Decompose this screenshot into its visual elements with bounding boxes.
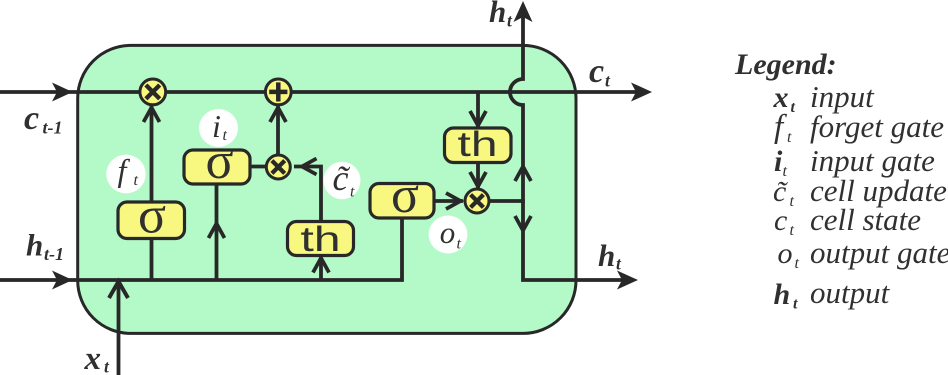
- operator: multiply i*cupdate: [266, 155, 290, 179]
- svg-text:h: h: [598, 238, 615, 273]
- svg-text:t: t: [793, 296, 798, 313]
- wire: th box down to output multiply: [476, 162, 480, 188]
- svg-text:t: t: [457, 236, 462, 253]
- LSTM cell body: [78, 45, 576, 333]
- arrowhead chevron up: [515, 167, 531, 182]
- wire: cell-state line c (horizontal): [0, 90, 640, 94]
- svg-text:σ: σ: [391, 167, 419, 224]
- svg-text:o: o: [778, 237, 793, 270]
- wire: junction down and right to h_t output: [523, 201, 622, 280]
- wire: junction up to top h_t with hop over c line: [510, 14, 523, 201]
- svg-text:t: t: [507, 11, 513, 31]
- svg-text:t: t: [787, 129, 792, 146]
- arrowhead chevron: [313, 258, 329, 273]
- svg-text:h: h: [26, 228, 43, 263]
- gate box: forget sigma: [118, 202, 185, 239]
- operator: plus on c line: [265, 79, 291, 105]
- wire: h bus (h_t-1 input, bottom): [0, 219, 402, 280]
- wire: forget branch (bus up through sigma to x-circle): [150, 106, 154, 279]
- arrowhead chevron down: [470, 172, 486, 187]
- wire: o sigma output right into multiply: [433, 199, 463, 203]
- svg-text:cell state: cell state: [810, 202, 921, 237]
- svg-text:t: t: [791, 99, 796, 116]
- arrowhead chevron down: [470, 111, 486, 126]
- wire: multiply to output junction: [490, 199, 525, 203]
- svg-text:th: th: [301, 220, 341, 259]
- svg-text:o: o: [440, 215, 456, 250]
- operator: multiply o*th: [465, 189, 489, 213]
- wire: multiply up to plus: [276, 105, 280, 155]
- svg-text:t: t: [605, 71, 611, 91]
- svg-text:th: th: [458, 125, 498, 164]
- gate box: th on cell state: [445, 128, 512, 163]
- svg-text:σ: σ: [138, 188, 166, 245]
- arrowhead output c_t: [631, 83, 652, 102]
- node label ellipse o_t: [429, 216, 468, 254]
- gate box: output sigma: [370, 184, 434, 219]
- svg-text:c̃: c̃: [333, 158, 352, 198]
- svg-text:t-1: t-1: [44, 244, 64, 264]
- wire: cell-update branch (bus up to th box): [319, 256, 323, 279]
- svg-text:c: c: [774, 204, 787, 237]
- arrowhead chevron down: [515, 216, 531, 231]
- svg-text:h: h: [774, 278, 791, 311]
- svg-text:t: t: [350, 184, 355, 201]
- arrowhead output h_t right: [617, 271, 638, 290]
- arrowhead chevron: [209, 224, 225, 239]
- gate box: cell-update th: [288, 222, 354, 256]
- arrowhead chevron into x-circle: [144, 108, 160, 123]
- gate box: input sigma: [184, 150, 250, 184]
- svg-text:x: x: [84, 341, 102, 375]
- node label ellipse cupdate: [324, 162, 361, 200]
- svg-text:c: c: [589, 53, 604, 90]
- arrowhead x_t chevron: [109, 282, 128, 299]
- arrowhead input h_t-1: [52, 271, 73, 290]
- svg-text:t: t: [795, 255, 800, 272]
- svg-text:t-1: t-1: [43, 118, 63, 138]
- svg-text:c: c: [24, 100, 39, 137]
- svg-text:output gate: output gate: [810, 235, 948, 270]
- node label ellipse i_t: [199, 109, 238, 147]
- arrowhead input c_t-1: [52, 83, 73, 102]
- wire: th output up and left into multiply: [294, 167, 321, 223]
- wire: input-gate branch (bus up to sigma): [215, 184, 219, 279]
- arrowhead chevron into plus: [270, 108, 286, 123]
- arrowhead chevron pointing left: [302, 159, 317, 175]
- wire: x_t input: [117, 281, 121, 375]
- operator: multiply on c line: [140, 79, 166, 105]
- svg-text:output: output: [810, 275, 891, 310]
- svg-text:Legend:: Legend:: [734, 48, 837, 81]
- svg-text:f: f: [774, 109, 787, 145]
- node label ellipse f_t: [106, 155, 145, 194]
- arrowhead output h_t top: [514, 1, 533, 22]
- svg-text:i: i: [212, 108, 221, 144]
- svg-text:t: t: [790, 193, 795, 210]
- arrowhead chevron right: [446, 193, 461, 209]
- svg-text:t: t: [134, 172, 139, 189]
- svg-text:h: h: [489, 0, 506, 29]
- svg-text:t: t: [223, 127, 228, 144]
- svg-text:t: t: [616, 254, 622, 274]
- svg-text:t: t: [104, 357, 110, 375]
- wire: i sigma output to multiply: [249, 165, 267, 169]
- wire: c line down to right th box: [476, 92, 480, 128]
- svg-text:forget gate: forget gate: [810, 109, 944, 144]
